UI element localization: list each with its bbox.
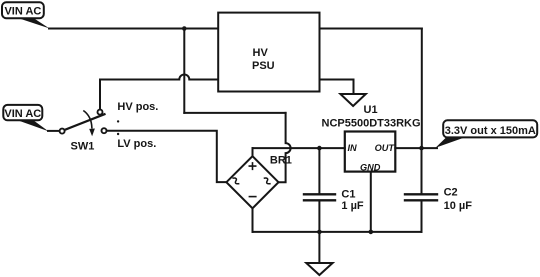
- HV PSU box: [218, 13, 319, 92]
- switch position dots: [117, 120, 119, 122]
- flag VIN AC bottom: [3, 105, 48, 131]
- wire PSU out top: [320, 28, 422, 30]
- svg-text:IN: IN: [348, 143, 358, 153]
- wire C1 bottom stub: [318, 201, 320, 232]
- junction node IN/C1: [317, 146, 322, 151]
- wire PSU ground: [320, 80, 354, 95]
- bridge BR1 diamond: [226, 156, 278, 208]
- wire bridge AC right with hop: [279, 113, 291, 182]
- svg-text:HV pos.: HV pos.: [117, 101, 158, 113]
- svg-text:VIN AC: VIN AC: [4, 108, 41, 120]
- bridge tilde right: [264, 177, 271, 186]
- svg-text:NCP5500DT33RKG: NCP5500DT33RKG: [322, 117, 421, 129]
- bridge tilde left: [232, 177, 239, 186]
- wire PSU out down to OUT node: [421, 29, 423, 149]
- wire AC line down from top junction: [183, 29, 185, 113]
- ground symbol bottom: [306, 263, 332, 275]
- switch SW1 pole circle: [60, 129, 65, 134]
- junction node top: [182, 26, 187, 31]
- flag VIN AC top: [2, 2, 49, 28]
- wire bottom rail: [253, 231, 422, 233]
- wire OUT pin to node: [395, 147, 437, 149]
- switch SW1 HV contact circle: [98, 110, 103, 115]
- wire C2 top stub: [421, 148, 423, 193]
- switch motion arrow: [83, 111, 92, 129]
- svg-text:PSU: PSU: [252, 60, 275, 72]
- svg-text:VIN AC: VIN AC: [4, 5, 41, 17]
- wire bridge plus to IN pin: [253, 147, 345, 149]
- wire switch HV contact up: [99, 80, 101, 110]
- svg-text:U1: U1: [364, 104, 378, 116]
- wire VIN AC top to HV PSU: [49, 28, 218, 30]
- svg-text:HV: HV: [253, 47, 269, 59]
- svg-text:3.3V out x 150mA: 3.3V out x 150mA: [445, 125, 536, 137]
- svg-text:1 µF: 1 µF: [341, 200, 364, 212]
- wire C2 bottom stub: [421, 201, 423, 232]
- svg-text:10 µF: 10 µF: [444, 200, 473, 212]
- svg-text:GND: GND: [360, 162, 381, 172]
- wire C1 top stub: [318, 148, 320, 193]
- wire bridge plus stub: [252, 148, 254, 156]
- capacitor C2 plates: [405, 193, 437, 195]
- bridge minus sign: [249, 196, 257, 198]
- svg-text:LV pos.: LV pos.: [117, 138, 156, 150]
- junction node rail GND: [369, 230, 374, 235]
- switch SW1 blade: [65, 114, 105, 130]
- junction node rail C1: [317, 230, 322, 235]
- svg-text:C2: C2: [444, 186, 458, 198]
- svg-text:OUT: OUT: [375, 143, 396, 153]
- capacitor C1 plates: [304, 193, 335, 195]
- wire regulator GND stub: [370, 172, 372, 232]
- svg-text:C1: C1: [341, 188, 355, 200]
- flag 3.3V out x 150mA: [436, 120, 538, 147]
- switch SW1 LV contact circle: [102, 128, 107, 133]
- wire ground stub bottom: [318, 232, 320, 263]
- wire tag2 pointer to switch pole: [48, 130, 60, 132]
- bridge plus sign: [249, 162, 257, 170]
- regulator U1 box: [345, 132, 396, 172]
- svg-text:SW1: SW1: [71, 141, 95, 153]
- wire AC line under PSU: [184, 112, 285, 114]
- wire LV pos to bridge: [107, 131, 226, 182]
- wire HV pos to PSU with hop: [100, 75, 218, 80]
- wire bridge minus stub: [252, 208, 254, 232]
- ground symbol under PSU: [340, 94, 365, 106]
- svg-text:BR1: BR1: [270, 154, 292, 166]
- junction node OUT/C2: [419, 146, 424, 151]
